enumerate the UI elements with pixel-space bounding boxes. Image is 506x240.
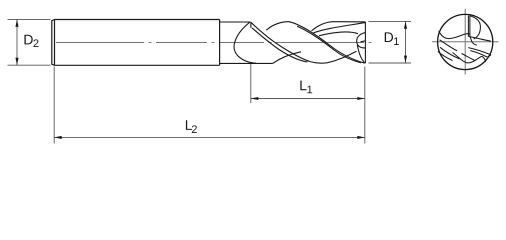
tip fan curve F3 to bubble (319, 32, 358, 36)
shank body (52, 20, 220, 66)
flute pattern (438, 15, 491, 63)
notch vertical at flute start (250, 22, 252, 28)
L2 dimension line (54, 136, 365, 138)
flute 3 face pair (lower-right) (468, 48, 491, 57)
D2 top arrow (15, 20, 18, 27)
flute 1 heel wavy line (439, 31, 470, 39)
end view centerlines (432, 41, 499, 43)
end view (432, 9, 499, 75)
bottom line of flute cylinder (220, 62, 273, 64)
arrowheads (15, 20, 407, 139)
bottom heel arch H1 (273, 52, 301, 64)
flute body neck lines (220, 22, 366, 64)
center stub (470, 36, 472, 42)
end view outer circle (438, 14, 493, 69)
flute edge pair P1, continuing through valley into rising heel (251, 22, 357, 63)
L2 extension line left (53, 67, 55, 144)
bottom S-wave gullet (453, 53, 482, 63)
flute 1 gash bulge (470, 16, 480, 39)
centerline of side view (56, 42, 372, 44)
L1+L2 shared extension right (364, 67, 366, 144)
D1 bottom arrow (404, 56, 407, 63)
D1 top arrow (404, 22, 407, 29)
tip fan curve F2 (314, 23, 366, 33)
L1 extension line left (250, 64, 252, 103)
label L1 (300, 81, 312, 94)
right end vertical (364, 22, 366, 64)
bottom hook to circle (482, 56, 486, 62)
D1 extension lines (369, 21, 412, 63)
tip fan curve F1 (top outline to corner) (312, 22, 366, 31)
D1 dimension line (405, 21, 407, 63)
label D2 (24, 35, 38, 47)
label L2 (186, 120, 197, 133)
flute 1 heel extension to circle (468, 36, 491, 41)
flute 3 land end connector (487, 55, 491, 57)
flute 2 upper diagonal (440, 40, 458, 51)
shank left end chamfer (52, 20, 55, 66)
L1 dimension line (251, 98, 365, 100)
tip bubble gash (357, 33, 366, 48)
flute edge pair P2 (289, 22, 365, 64)
L1 left arrow (251, 97, 258, 100)
D2 bottom arrow (15, 58, 18, 65)
flute 2 face pair (lower-left) (438, 47, 460, 60)
D2 dimension line (16, 19, 18, 65)
flute 1 face line pair (468, 15, 470, 36)
L2 left arrow (54, 136, 61, 139)
flute runout C-curve (234, 22, 256, 63)
L1 right arrow (357, 97, 364, 100)
L2 right arrow (357, 136, 364, 139)
dimension graphics (8, 19, 412, 143)
center curl (472, 42, 477, 45)
top line of flute cylinder (220, 21, 251, 23)
top crest arc (266, 22, 289, 31)
D2 extension lines (8, 19, 51, 65)
label D1 (385, 32, 399, 45)
inner S-wave (462, 54, 476, 61)
